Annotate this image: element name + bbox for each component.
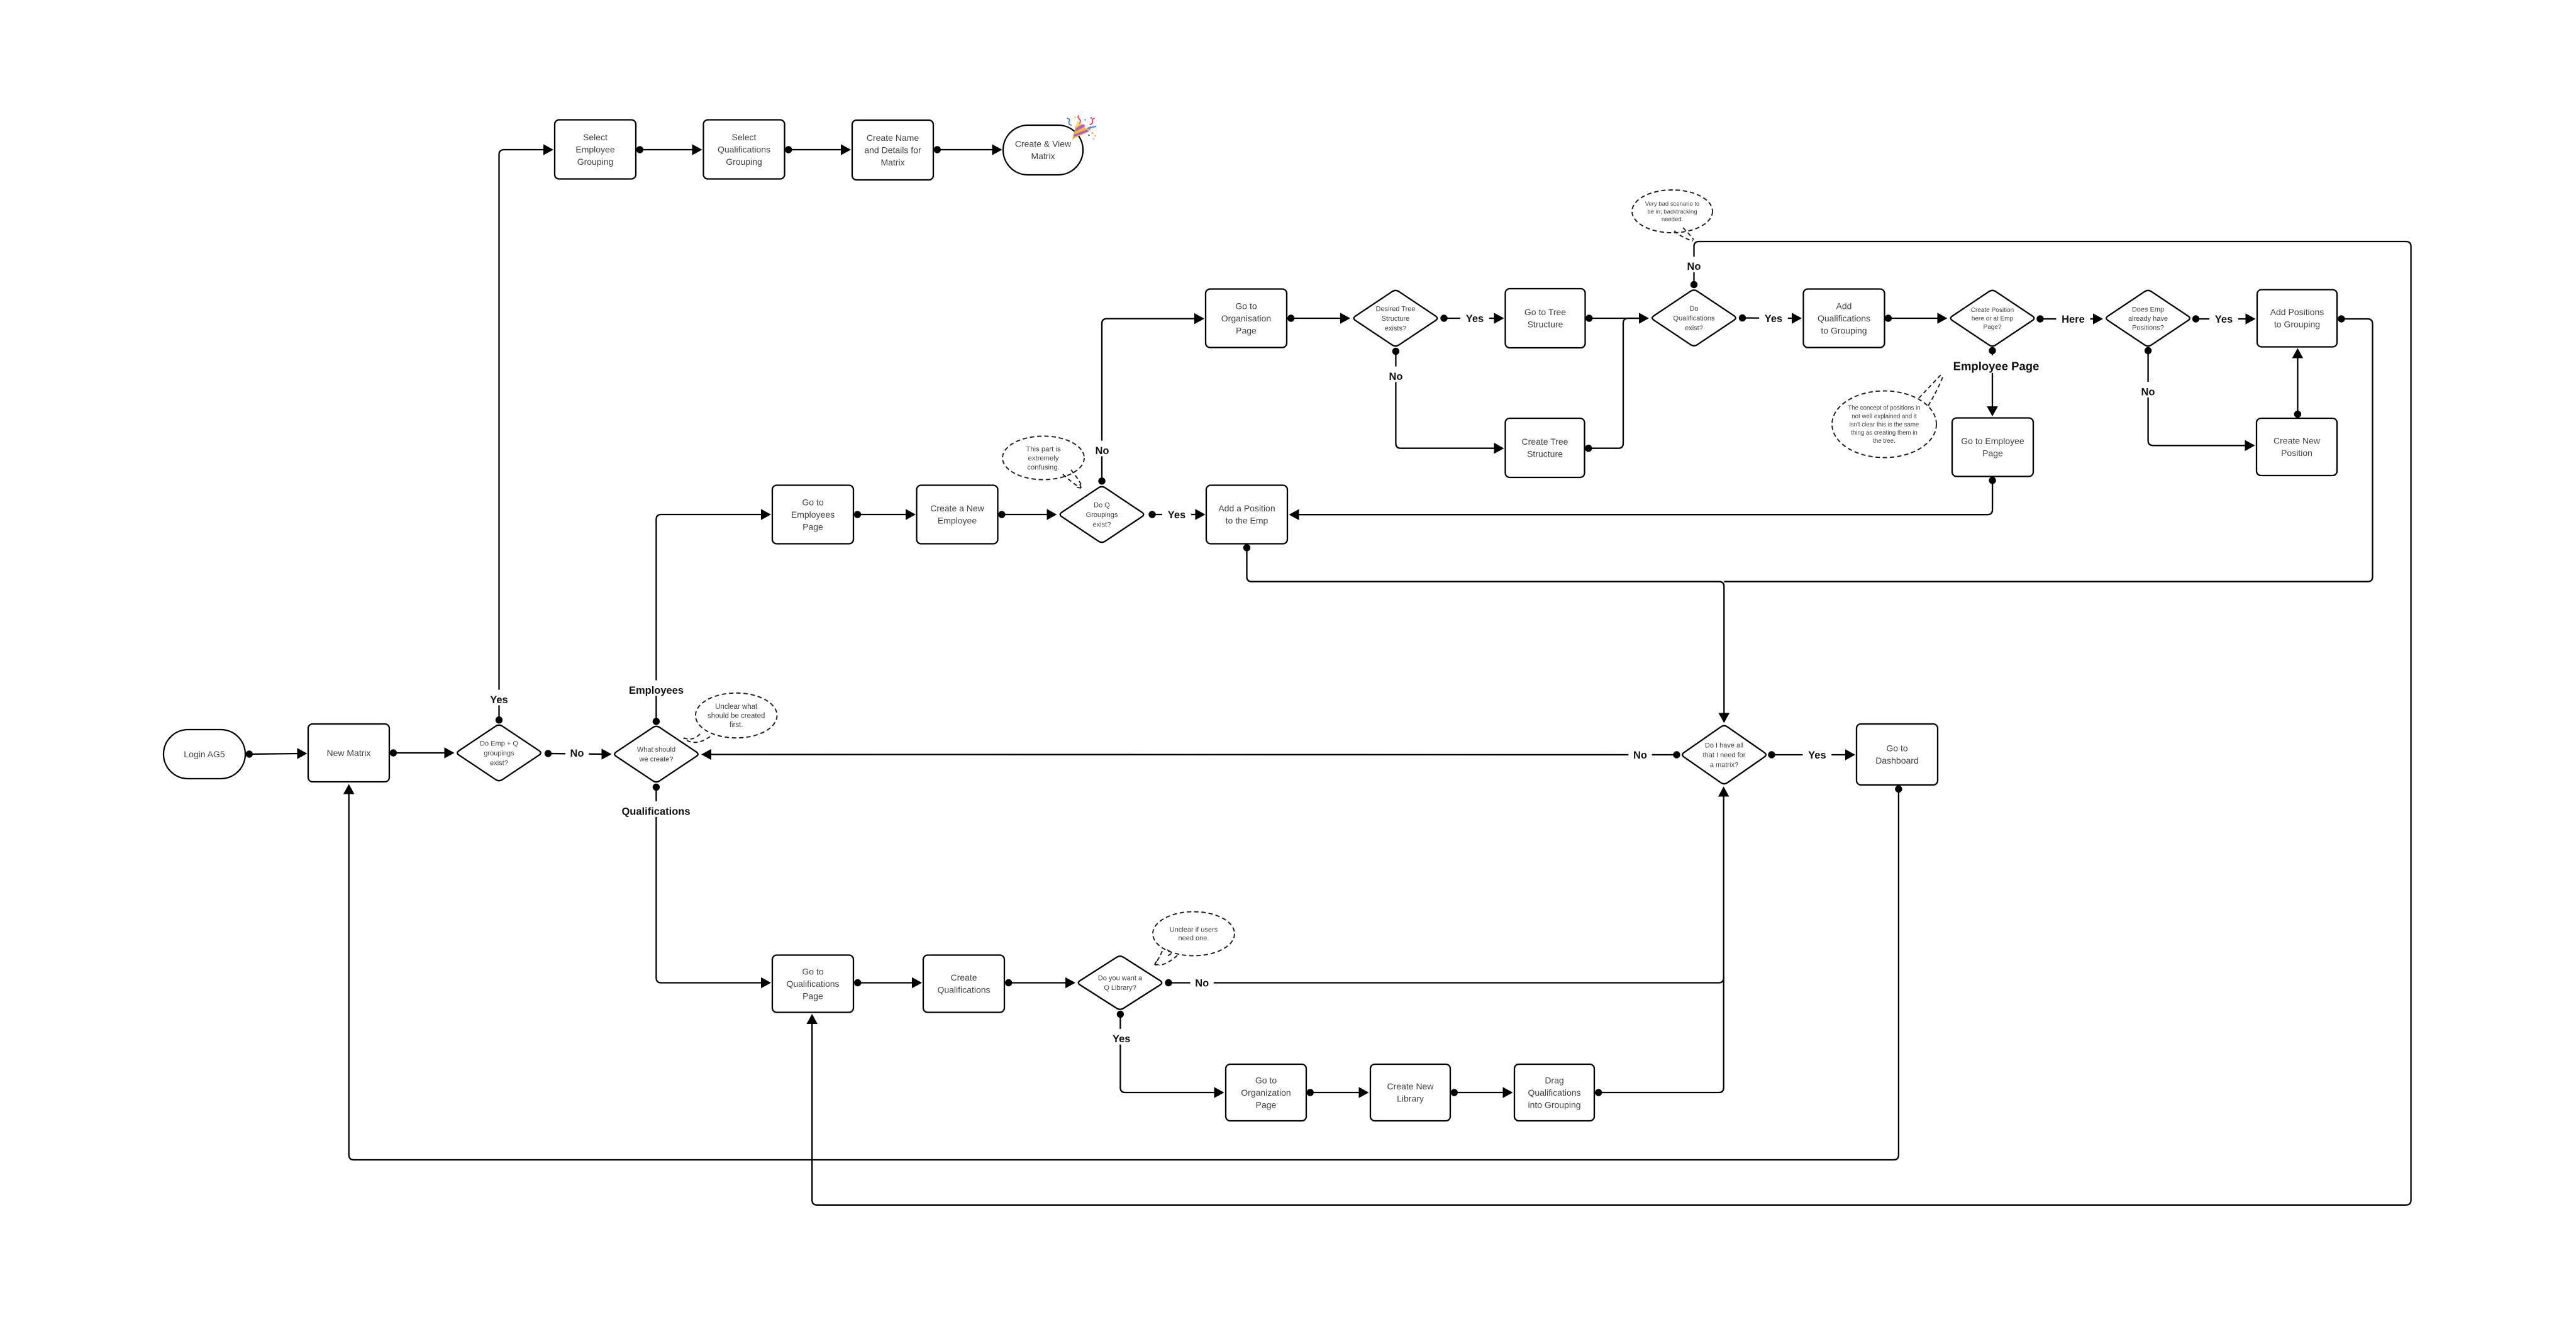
process New Matrix: [308, 724, 389, 782]
process Create New Position: [2257, 418, 2337, 476]
wire Select Employee Grouping to Select Qualifications Grouping: [636, 144, 702, 155]
wire Go to Organisation Page to Desired Tree Structure exists?: [1287, 313, 1350, 324]
wire Yes: tree exists to Go to Tree Structure: [1440, 313, 1504, 324]
process Create Tree Structure: [1506, 418, 1585, 477]
wire Create Tree Structure joins into Do Qualifications exist?: [1585, 318, 1646, 452]
svg-text:No: No: [570, 748, 584, 759]
label No back to What should we create: [1628, 745, 1652, 761]
process Go to Qualifications Page: [772, 955, 853, 1013]
wire Go to Tree Structure to Do Qualifications exist?: [1585, 313, 1649, 324]
svg-text:No: No: [1633, 750, 1647, 761]
decision Desired Tree Structure exists?: [1354, 291, 1438, 346]
wire Login AG5 to New Matrix: [246, 748, 308, 759]
decision Do Qualifications exist?: [1652, 290, 1736, 345]
svg-text:Yes: Yes: [1168, 509, 1185, 521]
svg-text:No: No: [1389, 371, 1403, 382]
label Qualifications: [612, 801, 700, 817]
speech bubble Unclear if users need one: [1153, 912, 1235, 966]
wire Yes: Q groupings exist to Add a Position to the Emp: [1148, 509, 1205, 520]
svg-text:Here: Here: [2062, 314, 2085, 325]
label No below Does Emp already have Positions: [2136, 382, 2160, 398]
wire Employees branch up to Go to Employees Page: [653, 509, 771, 725]
label Yes below Do you want a Q Library: [1107, 1029, 1136, 1045]
svg-text:Login AG5: Login AG5: [184, 749, 225, 759]
wire Yes: has positions to Add Positions to Grouping: [2192, 313, 2256, 325]
terminator Login AG5: [164, 730, 245, 779]
label Yes to Add Positions to Grouping: [2209, 309, 2238, 325]
wire Select Qualifications Grouping to Create Name and Details: [785, 144, 851, 155]
svg-text:Yes: Yes: [1113, 1033, 1130, 1045]
svg-text:Yes: Yes: [2215, 314, 2233, 325]
process Add a Position to the Emp: [1206, 486, 1287, 544]
speech bubble Very bad scenario to be in; backtracking needed: [1632, 190, 1713, 241]
svg-text:Qualifications: Qualifications: [621, 806, 690, 817]
svg-text:Yes: Yes: [1765, 313, 1782, 325]
process Go to Tree Structure: [1506, 289, 1585, 348]
svg-text:This part isextremelyconfusing: This part isextremelyconfusing.: [1026, 446, 1061, 472]
wire Go to Qualifications Page to Create Qualifications: [854, 977, 922, 989]
wire Add Positions to Grouping right side down to junction: [1724, 315, 2372, 581]
label Yes above Do Emp + Q groupings: [485, 690, 514, 706]
speech bubble This part is extremely confusing: [1002, 436, 1084, 488]
wire No: Q library, right and up to Do I have all that I need?: [1165, 787, 1729, 987]
process Go to Organization Page: [1226, 1064, 1306, 1121]
process Select Qualifications Grouping: [704, 120, 785, 179]
wire Create New Library to Drag Qualifications into Grouping: [1451, 1087, 1513, 1098]
label Yes to Go to Dashboard: [1803, 745, 1832, 761]
speech bubble Unclear what should be created first: [682, 693, 777, 743]
wire No: groupings exist to What should we create?: [545, 748, 612, 760]
wire Create New Position up to Add Positions to Grouping: [2292, 348, 2304, 418]
process Create a New Employee: [917, 486, 998, 544]
label Yes to Add a Position: [1162, 505, 1191, 521]
process Select Employee Grouping: [555, 120, 636, 179]
wire No: qualifications - big backtracking loop to Go to Qualifications Page: [806, 242, 2411, 1205]
wire No: positions, down to Create New Position: [2145, 347, 2255, 451]
svg-text:No: No: [1195, 977, 1209, 989]
svg-text:Employees: Employees: [629, 685, 684, 696]
process Create New Library: [1370, 1064, 1450, 1121]
label Employees: [626, 681, 687, 696]
label Employee Page below Create Position diamond: [1951, 355, 2042, 373]
process Add Qualifications to Grouping: [1804, 289, 1885, 348]
wire Yes: all I need to Go to Dashboard: [1768, 749, 1855, 760]
wire Yes: qualifications exist to Add Qualifications to Grouping: [1739, 313, 1802, 324]
svg-text:Does Empalready havePositions?: Does Empalready havePositions?: [2128, 306, 2168, 331]
process Create Qualifications: [923, 955, 1004, 1013]
label No between groupings-exist and what-create: [565, 743, 589, 759]
decision Do Q Groupings exist?: [1060, 487, 1144, 542]
process Add Positions to Grouping: [2257, 290, 2337, 347]
decision What should we create?: [614, 726, 698, 782]
wire Create a New Employee to Do Q Groupings exist?: [998, 509, 1057, 520]
svg-text:New Matrix: New Matrix: [326, 748, 370, 758]
wire Create Qualifications to Do you want a Q Library?: [1005, 977, 1075, 989]
svg-text:No: No: [1096, 445, 1109, 457]
process Go to Dashboard: [1857, 724, 1938, 785]
svg-text:Yes: Yes: [1466, 313, 1484, 325]
wire Here: to Does Emp already have Positions?: [2036, 313, 2103, 325]
speech bubble The concept of positions is not well explained: [1832, 374, 1943, 458]
wire New Matrix to Do Emp + Q groupings exist?: [390, 747, 455, 759]
wire No: Q groupings, up to Go to Organisation Page: [1098, 313, 1204, 485]
wire Add Qualifications to Grouping to Create Position here or at Emp Page?: [1885, 313, 1948, 324]
wire No: tree, down to Create Tree Structure: [1392, 348, 1504, 454]
wire Go to Organization Page to Create New Library: [1307, 1087, 1369, 1098]
wire Yes: Q library, down to Go to Organization Page: [1117, 1011, 1224, 1098]
label No above Do Qualifications exist: [1682, 257, 1706, 272]
svg-text:Yes: Yes: [1808, 750, 1826, 761]
svg-text:Employee Page: Employee Page: [1953, 360, 2040, 373]
terminator Create & View Matrix: [1003, 125, 1083, 175]
wire Employee Page: down to Go to Employee Page: [1987, 347, 1998, 416]
wire Go to Employees Page to Create a New Employee: [854, 509, 916, 520]
label No from Do you want a Q Library: [1191, 973, 1214, 989]
label Yes to Go to Tree Structure: [1460, 309, 1489, 325]
svg-text:No: No: [1687, 261, 1701, 272]
decision Does Emp already have Positions?: [2106, 291, 2190, 346]
process Create Name and Details for Matrix: [852, 120, 933, 180]
label No below Desired Tree Structure: [1384, 367, 1407, 382]
decision Do Emp + Q groupings exist?: [457, 725, 541, 781]
wire Create Name and Details to Create & View Matrix: [934, 144, 1002, 155]
wire No: not all I need, back to What should we create?: [701, 749, 1680, 760]
process Drag Qualifications into Grouping: [1514, 1064, 1594, 1121]
wire Qualifications branch down to Go to Qualifications Page: [653, 784, 771, 989]
decision Do I have all that I need for a matrix?: [1682, 726, 1766, 784]
process Go to Employees Page: [772, 486, 853, 544]
wire Yes: groupings exist, up to Select Employee Grouping: [496, 144, 553, 723]
decision Create Position here or at Emp Page?: [1951, 291, 2035, 346]
label Here to Does Emp already have Positions: [2056, 309, 2090, 325]
process Go to Organisation Page: [1206, 289, 1287, 348]
svg-text:Yes: Yes: [490, 694, 508, 706]
process Go to Employee Page: [1952, 418, 2033, 477]
label Yes to Add Qualifications to Grouping: [1759, 309, 1788, 325]
wire Add a Position to the Emp down to Do I have all that I need?: [1243, 544, 1729, 723]
label No up from Do Q Groupings: [1091, 441, 1114, 457]
decision Do you want a Q Library?: [1079, 956, 1162, 1010]
party popper emoji on Create & View Matrix: [1067, 116, 1096, 140]
wire Go to Employee Page down-left to Add a Position to the Emp: [1289, 477, 1996, 520]
wire Drag Qualifications into Grouping joins loop to Do I have all: [1595, 977, 1724, 1096]
svg-text:No: No: [2141, 386, 2155, 398]
wire Go to Dashboard loop back to New Matrix: [343, 784, 1902, 1160]
